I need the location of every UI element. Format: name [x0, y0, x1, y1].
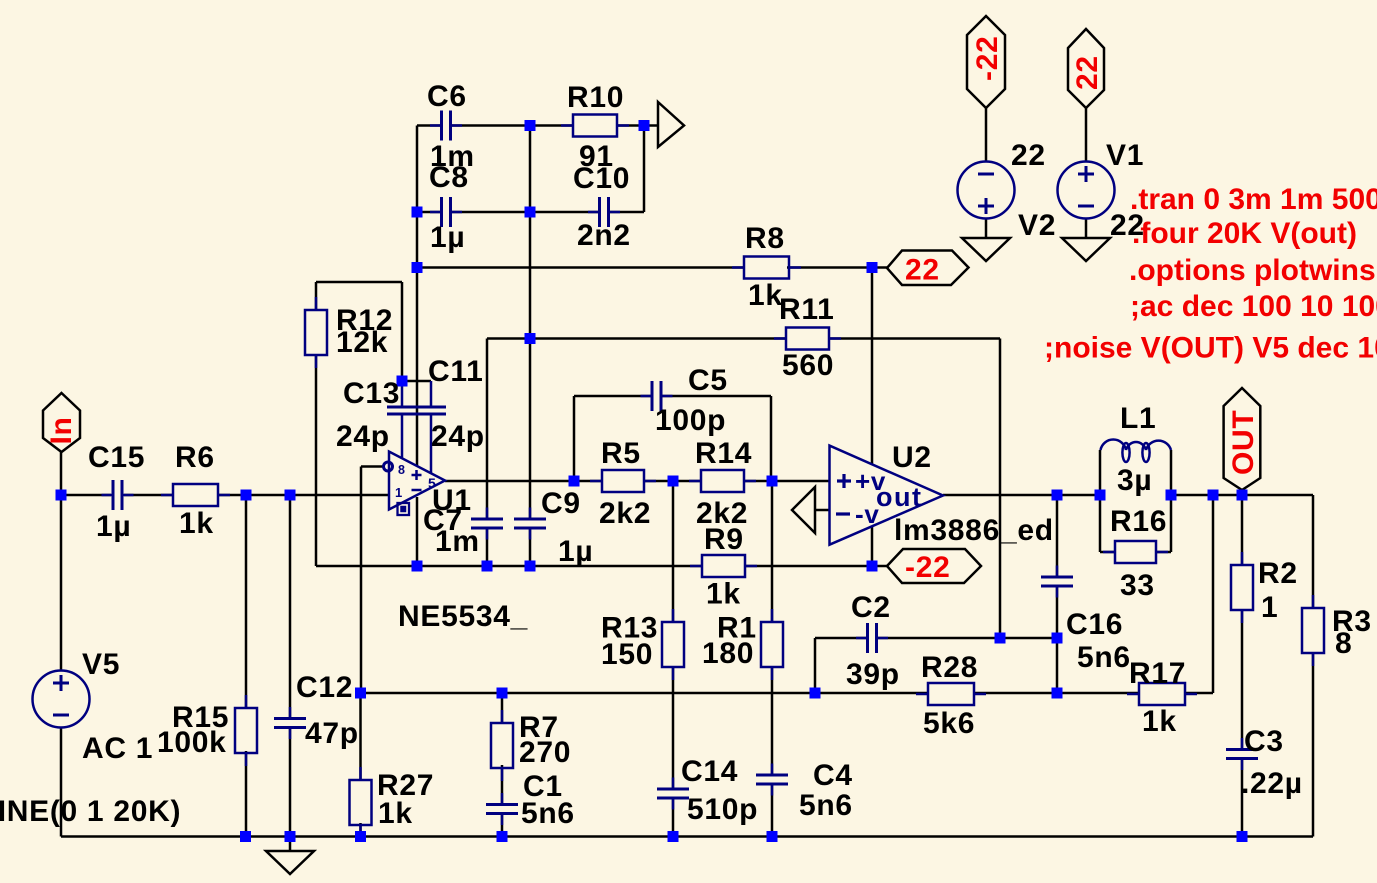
wire: [985, 108, 988, 162]
capacitor C8: [430, 197, 462, 227]
wire: [1056, 495, 1059, 576]
wire: [289, 495, 292, 718]
arrow marker U2 input: [792, 487, 815, 533]
voltage source V5: [33, 671, 90, 728]
resistor R27: [350, 767, 372, 838]
svg-text:C15: C15: [88, 441, 145, 474]
svg-text:8: 8: [1335, 627, 1352, 660]
svg-text:C14: C14: [681, 755, 738, 788]
wire: [787, 266, 872, 269]
resistor R5: [590, 470, 656, 492]
wire: [401, 282, 404, 378]
svg-text:1k: 1k: [1142, 705, 1177, 738]
wire: [60, 728, 63, 837]
svg-text:2k2: 2k2: [599, 497, 651, 530]
wire: [1171, 494, 1313, 497]
wire: [529, 529, 532, 566]
junction: [668, 831, 679, 842]
junction: [412, 262, 423, 273]
wire: [871, 268, 874, 465]
ground (V1): [1062, 238, 1110, 261]
wire: [672, 798, 675, 837]
capacitor C5: [641, 381, 673, 411]
resistor R3: [1302, 595, 1324, 666]
svg-text:24p: 24p: [336, 420, 390, 453]
junction: [412, 207, 423, 218]
wire: [1312, 653, 1315, 837]
wire: [501, 765, 504, 804]
wire: [218, 494, 389, 497]
svg-text:22: 22: [1071, 55, 1104, 90]
wire: [245, 495, 248, 708]
wire: [61, 494, 111, 497]
wire: [770, 396, 773, 481]
wire: [573, 396, 576, 481]
wire: [672, 481, 675, 622]
svg-text:47p: 47p: [305, 717, 359, 750]
port flag In: [43, 393, 80, 452]
junction: [867, 262, 878, 273]
wire: [316, 565, 702, 568]
junction: [497, 831, 508, 842]
wire: [416, 497, 419, 566]
svg-text:out: out: [876, 482, 922, 512]
wire: [124, 494, 173, 497]
junction: [639, 120, 650, 131]
wire: [402, 380, 431, 383]
junction: [412, 561, 423, 572]
wire: [829, 337, 1000, 340]
resistor R14: [689, 470, 756, 492]
resistor R12: [305, 297, 327, 368]
svg-text:R9: R9: [704, 523, 744, 556]
wire: [1100, 551, 1115, 554]
svg-text:1k: 1k: [378, 797, 413, 830]
resistor R28: [916, 683, 986, 705]
svg-text:560: 560: [782, 349, 834, 382]
wire: [943, 494, 1100, 497]
wire: [985, 219, 988, 238]
svg-text:1µ: 1µ: [96, 510, 131, 543]
wire: [486, 339, 489, 519]
wire: [617, 124, 658, 127]
svg-text:180: 180: [702, 637, 754, 670]
junction: [1237, 490, 1248, 501]
resistor R16: [1103, 541, 1168, 563]
ground (left): [266, 851, 314, 874]
junction: [1052, 633, 1063, 644]
junction: [569, 476, 580, 487]
wire: [417, 124, 440, 127]
resistor R15: [235, 695, 257, 766]
resistor R7: [491, 710, 513, 781]
voltage source V2: [958, 162, 1015, 219]
wire: [60, 452, 63, 671]
svg-text:5n6: 5n6: [521, 797, 575, 830]
port flag OUT: [1224, 388, 1261, 490]
capacitor C3: [1226, 738, 1258, 770]
capacitor C13: [387, 384, 419, 459]
wire: [530, 211, 598, 214]
junction: [355, 688, 366, 699]
wire: [1056, 587, 1059, 693]
svg-text:R14: R14: [695, 437, 752, 470]
junction: [525, 333, 536, 344]
wire: [999, 339, 1002, 639]
junction: [525, 561, 536, 572]
svg-text:1: 1: [395, 485, 403, 500]
wire: [289, 728, 292, 837]
junction: [767, 476, 778, 487]
resistor R9: [690, 555, 757, 577]
wire: [417, 266, 744, 269]
wire: [814, 638, 817, 693]
svg-text:100p: 100p: [655, 404, 726, 437]
svg-text:1k: 1k: [706, 578, 741, 611]
svg-text:;ac dec 100 10 100k: ;ac dec 100 10 100k: [1130, 290, 1377, 323]
svg-text:2n2: 2n2: [577, 219, 631, 252]
wire: [316, 281, 402, 284]
svg-text:-22: -22: [905, 551, 950, 584]
wire: [360, 467, 363, 694]
svg-text:R5: R5: [601, 437, 641, 470]
svg-text:8: 8: [398, 463, 406, 477]
wire: [872, 565, 887, 568]
svg-text:C10: C10: [573, 162, 630, 195]
arrow marker R10 output: [658, 102, 684, 147]
wire: [1057, 692, 1139, 695]
resistor R13: [662, 609, 684, 680]
wire: [452, 124, 530, 127]
junction: [1052, 688, 1063, 699]
wire: [359, 693, 362, 780]
capacitor C14: [657, 778, 689, 810]
wire: [486, 529, 489, 566]
junction: [482, 561, 493, 572]
wire: [359, 823, 362, 837]
wire: [871, 527, 874, 566]
svg-text:L1: L1: [1120, 402, 1156, 435]
wire: [487, 337, 786, 340]
svg-text:5k6: 5k6: [923, 707, 975, 740]
svg-text:.options plotwinsize=0: .options plotwinsize=0: [1129, 254, 1377, 287]
wire: [815, 637, 866, 640]
resistor R8: [732, 257, 801, 279]
wire: [643, 126, 646, 213]
junction: [767, 831, 778, 842]
svg-text:C13: C13: [343, 377, 400, 410]
op-amp U1: [384, 452, 446, 516]
wire: [361, 692, 929, 695]
junction: [285, 831, 296, 842]
svg-text:R8: R8: [745, 222, 785, 255]
svg-text:1k: 1k: [748, 279, 783, 312]
svg-text:C16: C16: [1066, 608, 1123, 641]
svg-text:1m: 1m: [435, 525, 480, 558]
svg-text:1: 1: [1261, 591, 1278, 624]
resistor R1: [761, 609, 783, 680]
resistor R10: [561, 115, 629, 137]
capacitor C2: [856, 623, 888, 653]
wire: [1085, 219, 1088, 238]
svg-text:R16: R16: [1110, 505, 1167, 538]
svg-text:100k: 100k: [157, 726, 227, 759]
wire: [1241, 611, 1244, 749]
resistor R11: [774, 328, 841, 350]
wire: [1085, 108, 1088, 162]
capacitor C9: [514, 508, 546, 540]
net flag 22 (top): [1068, 29, 1104, 108]
svg-text:1k: 1k: [179, 507, 214, 540]
junction: [668, 476, 679, 487]
net flag 22 (R8): [887, 251, 969, 286]
wire: [501, 693, 504, 723]
capacitor C1: [486, 793, 518, 825]
svg-text:.four 20K V(out): .four 20K V(out): [1132, 217, 1357, 250]
wire: [771, 481, 774, 622]
junction: [397, 376, 408, 387]
junction: [1166, 490, 1177, 501]
junction: [867, 561, 878, 572]
junction: [56, 490, 67, 501]
svg-text:.22µ: .22µ: [1241, 767, 1303, 800]
wire: [1241, 759, 1244, 837]
svg-text:1µ: 1µ: [558, 535, 593, 568]
svg-text:SINE(0 1 20K): SINE(0 1 20K): [0, 795, 181, 828]
junction: [1095, 490, 1106, 501]
junction: [525, 207, 536, 218]
junction: [1052, 490, 1063, 501]
svg-text:R6: R6: [175, 441, 215, 474]
wire: [744, 480, 830, 483]
wire: [1156, 551, 1171, 554]
svg-text:3µ: 3µ: [1117, 464, 1152, 497]
svg-text:C12: C12: [296, 671, 353, 704]
wire: [662, 395, 771, 398]
svg-text:OUT: OUT: [1227, 410, 1260, 475]
svg-text:C9: C9: [541, 487, 581, 520]
net flag -22 (top): [967, 16, 1005, 108]
wire: [644, 480, 701, 483]
wire: [1312, 495, 1315, 608]
svg-text:lm3886_ed: lm3886_ed: [894, 514, 1054, 547]
svg-text:R28: R28: [921, 651, 978, 684]
svg-text:12k: 12k: [336, 326, 388, 359]
wire: [878, 637, 1057, 640]
wire: [610, 211, 644, 214]
svg-text:150: 150: [601, 638, 653, 671]
wire: [1099, 450, 1102, 552]
capacitor C16: [1041, 566, 1073, 598]
wire: [289, 837, 292, 852]
junction: [1237, 831, 1248, 842]
resistor R6: [161, 484, 230, 506]
svg-text:C6: C6: [427, 80, 467, 113]
U1 pin numbers: [395, 463, 437, 500]
inductor L1: [1101, 440, 1172, 462]
svg-text:.tran 0 3m 1m 500u: .tran 0 3m 1m 500u: [1130, 183, 1377, 216]
wire: [361, 465, 385, 468]
net flag -22 (U2): [887, 549, 981, 583]
svg-text:1µ: 1µ: [430, 221, 465, 254]
svg-text:C4: C4: [813, 759, 853, 792]
wire: [974, 692, 1057, 695]
wire: [61, 835, 1313, 838]
svg-text:C8: C8: [429, 161, 469, 194]
svg-text:33: 33: [1120, 569, 1155, 602]
svg-text:R11: R11: [779, 293, 834, 326]
svg-text:24p: 24p: [431, 420, 485, 453]
wire: [1212, 495, 1215, 693]
wire: [574, 395, 651, 398]
svg-text:5n6: 5n6: [1077, 641, 1131, 674]
junction: [241, 490, 252, 501]
svg-text:V1: V1: [1106, 139, 1144, 172]
wire: [445, 480, 602, 483]
wire: [771, 784, 774, 837]
wire: [872, 266, 887, 269]
svg-text:C5: C5: [688, 364, 728, 397]
resistor R2: [1231, 552, 1253, 623]
capacitor C11: [414, 381, 446, 474]
capacitor C10: [588, 197, 620, 227]
wire: [417, 211, 440, 214]
wire: [1241, 495, 1244, 565]
wire: [315, 282, 318, 310]
junction: [525, 120, 536, 131]
junction: [810, 688, 821, 699]
capacitor C4: [756, 764, 788, 796]
junction: [240, 831, 251, 842]
capacitor C15: [102, 480, 134, 510]
ground (V2): [962, 238, 1010, 261]
svg-text:5n6: 5n6: [799, 789, 853, 822]
wire: [530, 124, 573, 127]
wire: [745, 565, 872, 568]
svg-text:R17: R17: [1129, 657, 1186, 690]
wire: [672, 667, 675, 789]
junction: [995, 633, 1006, 644]
svg-text:22: 22: [1011, 139, 1046, 172]
svg-text:V2: V2: [1018, 209, 1056, 242]
svg-text:C11: C11: [428, 355, 483, 388]
capacitor C6: [430, 111, 462, 141]
wire: [245, 751, 248, 837]
svg-text:510p: 510p: [687, 793, 758, 826]
svg-text:R2: R2: [1258, 557, 1298, 590]
svg-text:-22: -22: [971, 36, 1004, 81]
wire: [501, 814, 504, 837]
svg-text:22: 22: [905, 254, 940, 287]
junction: [285, 490, 296, 501]
svg-text:C2: C2: [851, 591, 891, 624]
svg-text:C3: C3: [1244, 725, 1284, 758]
capacitor C12: [274, 707, 306, 739]
voltage source V1: [1058, 162, 1115, 219]
svg-text:AC 1: AC 1: [82, 732, 153, 765]
wire: [1170, 450, 1173, 552]
junction: [497, 688, 508, 699]
svg-text:R10: R10: [567, 81, 624, 114]
resistor R17: [1127, 683, 1197, 705]
wire: [771, 667, 774, 775]
svg-text:39p: 39p: [846, 658, 900, 691]
svg-text:270: 270: [519, 736, 571, 769]
svg-text:;noise V(OUT) V5 dec 100 10 10: ;noise V(OUT) V5 dec 100 10 100k: [1044, 332, 1377, 365]
junction: [1208, 490, 1219, 501]
svg-text:V5: V5: [82, 648, 120, 681]
wire: [815, 509, 830, 512]
wire: [315, 355, 318, 566]
wire: [452, 211, 530, 214]
svg-text:In: In: [45, 416, 78, 444]
junction: [355, 831, 366, 842]
wire: [416, 126, 419, 467]
op-amp U2: [830, 446, 944, 545]
capacitor C7: [471, 508, 503, 540]
wire: [529, 126, 532, 519]
svg-text:U2: U2: [892, 441, 932, 474]
wire: [1185, 692, 1213, 695]
svg-text:NE5534_: NE5534_: [398, 600, 528, 633]
